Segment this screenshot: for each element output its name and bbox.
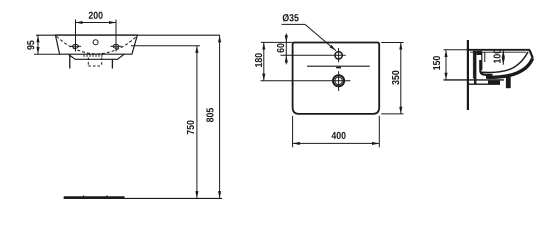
dimension 60 (arrows outside)	[285, 33, 287, 64]
top edge extension line (left)	[261, 41, 293, 43]
bottom fixing line (150 extension)	[444, 79, 505, 81]
dimension 180	[263, 43, 265, 81]
dimension 400	[293, 142, 380, 144]
left tap hole	[70, 44, 81, 48]
dimension 150	[445, 50, 447, 80]
label O35	[283, 14, 299, 22]
deck level extension line (750)	[131, 45, 200, 47]
back inner line 2	[484, 52, 486, 62]
dashed inner bowl curve	[57, 36, 137, 54]
inner bowl edge	[482, 52, 528, 73]
label 350	[392, 71, 399, 85]
dimension 95	[37, 35, 39, 54]
label 200	[89, 12, 103, 19]
tap hole (plan)	[335, 52, 342, 59]
back inner line	[481, 52, 483, 70]
thick ceramic bottom band	[487, 58, 533, 77]
overflow slot tick	[336, 67, 341, 69]
back section thick bar	[474, 51, 476, 84]
drain (plan)	[333, 71, 344, 91]
drain pipe	[506, 77, 511, 88]
basin underside trapezoid	[68, 54, 124, 59]
floor tick marks	[83, 195, 85, 197]
back wall thin line	[472, 51, 474, 79]
95 bottom extension line	[34, 53, 60, 55]
rim top line	[444, 49, 468, 51]
dimension 805	[219, 35, 221, 198]
label 60	[277, 44, 284, 53]
floor thick segment	[64, 196, 125, 198]
dimension 100	[502, 50, 504, 64]
overflow hole	[93, 40, 98, 45]
label 100	[493, 49, 500, 63]
basin body outline	[55, 35, 137, 54]
dashed drain ticks under bowl	[84, 54, 102, 57]
floor line	[64, 197, 222, 199]
right tap hole	[110, 44, 121, 48]
label 180	[255, 53, 262, 67]
180 extension line to drain	[261, 80, 351, 82]
label 95	[27, 40, 34, 49]
dashed trap outline	[88, 58, 101, 67]
back ledge filled block	[477, 51, 482, 55]
bracket filled block	[488, 81, 500, 84]
plan outline	[293, 43, 380, 114]
front beak outer edge	[530, 50, 533, 58]
Ø35 leader	[282, 24, 337, 50]
wall line	[467, 40, 469, 110]
label 805	[206, 108, 213, 122]
400 extension lines	[292, 116, 294, 147]
350 extension lines	[381, 42, 403, 44]
dimension 200	[76, 20, 117, 52]
label 150	[433, 56, 440, 70]
rim second line	[470, 51, 526, 53]
bowl back inner corner	[480, 60, 492, 75]
label 750	[187, 120, 194, 134]
basin back edge line	[307, 65, 370, 67]
top edge / extension line	[36, 34, 220, 36]
60 extension line through tap hole	[281, 54, 346, 56]
dimension 350	[400, 43, 402, 114]
lower bracket line	[468, 83, 500, 85]
dimension 750	[196, 46, 198, 199]
right mounting leg	[111, 59, 113, 68]
left mounting leg	[69, 55, 71, 68]
label 400	[332, 132, 346, 139]
